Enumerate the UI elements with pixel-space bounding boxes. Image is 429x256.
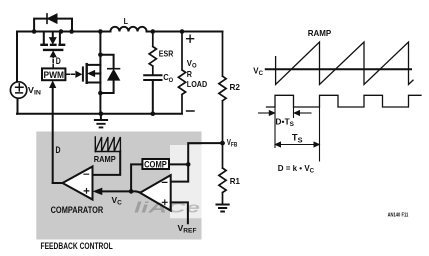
transistor Q1 (top switch PMOS) — [44, 32, 60, 43]
svg-text:ESR: ESR — [159, 48, 174, 58]
waveform duty square wave — [267, 95, 422, 107]
svg-text:R1: R1 — [230, 176, 240, 186]
svg-text:AN140 F11: AN140 F11 — [388, 212, 409, 218]
wire COMP tap from VC — [131, 164, 142, 191]
svg-text:LOAD: LOAD — [187, 79, 207, 89]
resistor R LOAD — [178, 32, 185, 114]
op-amp U2 (error amplifier) — [140, 175, 171, 211]
diode D2 (Q2 body diode) — [100, 55, 113, 93]
svg-text:VO: VO — [187, 58, 197, 70]
ground (power stage) — [100, 114, 102, 120]
wire VFB feedback into box — [171, 143, 223, 182]
svg-text:D: D — [56, 56, 61, 66]
wire COMP to VFB node — [169, 163, 188, 165]
wire vin to ground rail — [17, 98, 19, 114]
resistor R2 — [219, 32, 226, 144]
source VIN — [10, 82, 26, 98]
node dots on top rail — [32, 29, 37, 34]
resistor ESR — [149, 32, 156, 74]
dimension arrows D*TS — [259, 112, 312, 114]
resistor R1 — [219, 143, 226, 203]
svg-text:VFB: VFB — [227, 137, 238, 149]
svg-text:VIN: VIN — [28, 85, 41, 97]
wire dashed PWM to Q2 gate — [66, 73, 76, 75]
dimension ticks — [275, 107, 320, 161]
ground (R1) — [216, 205, 230, 212]
block PWM — [42, 68, 65, 80]
svg-text:TS: TS — [292, 133, 303, 145]
capacitor CO — [144, 75, 161, 80]
wire left input rail — [16, 32, 18, 83]
svg-text:VC: VC — [253, 65, 263, 77]
waveform ramp sawtooth — [276, 42, 413, 85]
wire bottom ground rail — [17, 113, 182, 115]
dimension arrow TS — [280, 144, 316, 146]
svg-text:R2: R2 — [230, 82, 241, 92]
svg-text:CO: CO — [163, 72, 173, 84]
svg-text:RAMP: RAMP — [308, 28, 332, 38]
svg-text:D•TS: D•TS — [275, 116, 294, 128]
wire ramp to comparator minus input — [93, 152, 121, 175]
svg-text:R: R — [187, 69, 192, 79]
wire dashed gate drive D to Q1 — [52, 56, 54, 68]
wire comparator output to D rail — [53, 182, 63, 184]
label plus — [187, 35, 194, 42]
wire comparator output D into PWM — [52, 85, 54, 184]
diode D1 (top freewheel) — [34, 19, 72, 32]
node VC level line — [266, 68, 411, 70]
wire top rail — [17, 31, 223, 33]
svg-text:D: D — [56, 145, 61, 155]
svg-text:liACe: liACe — [134, 200, 200, 217]
wire error amp + input to VREF — [171, 202, 188, 223]
inductor L — [110, 27, 146, 32]
svg-text:RAMP: RAMP — [94, 154, 116, 164]
svg-text:L: L — [124, 16, 128, 26]
svg-text:COMPARATOR: COMPARATOR — [51, 205, 104, 215]
svg-text:PWM: PWM — [44, 70, 65, 80]
svg-text:COMP: COMP — [144, 160, 167, 170]
label minus — [187, 110, 194, 112]
node VFB — [220, 141, 225, 146]
svg-text:FEEDBACK CONTROL: FEEDBACK CONTROL — [41, 241, 114, 251]
wire VC error amp output to comparator — [103, 191, 140, 192]
comparator U1 — [63, 167, 93, 200]
block COMP — [142, 159, 169, 169]
watermark light box — [170, 145, 202, 218]
feedback control shaded box — [36, 132, 201, 240]
transistor Q2 (bottom NMOS) — [99, 32, 101, 114]
svg-text:D = k • VC: D = k • VC — [278, 163, 315, 175]
ramp generator icon — [95, 137, 120, 152]
